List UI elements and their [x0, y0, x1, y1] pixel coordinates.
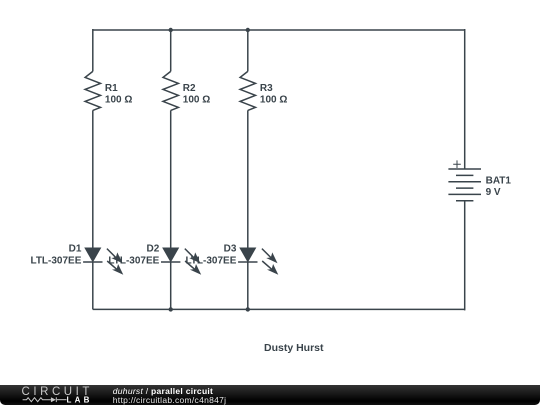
svg-text:Dusty Hurst: Dusty Hurst — [264, 342, 324, 354]
svg-text:100 Ω: 100 Ω — [183, 95, 210, 106]
node junction top middle — [169, 28, 173, 32]
wire D3 to bottom — [247, 262, 249, 309]
svg-text:D3: D3 — [224, 244, 237, 255]
LED D3 — [238, 248, 278, 275]
CircuitLab logo — [0, 385, 100, 405]
svg-text:9 V: 9 V — [486, 187, 501, 198]
svg-text:LAB: LAB — [67, 396, 93, 405]
resistor R2 — [163, 71, 178, 110]
wire bottom rail — [93, 308, 465, 310]
wire right branch upper lead — [247, 30, 249, 71]
LED D2 — [161, 248, 201, 275]
wire battery top lead — [464, 29, 466, 169]
svg-text:R2: R2 — [183, 83, 196, 94]
wire R2 to D2 — [170, 110, 172, 248]
resistor R3 — [240, 71, 255, 110]
footer bar — [0, 385, 540, 405]
node junction top right — [246, 28, 250, 32]
wire R3 to D3 — [247, 110, 249, 248]
svg-text:R3: R3 — [260, 83, 273, 94]
wire middle branch upper lead — [170, 30, 172, 71]
svg-text:R1: R1 — [105, 83, 118, 94]
battery + polarity mark — [453, 160, 461, 168]
wire top rail — [93, 29, 465, 31]
svg-text:D1: D1 — [69, 244, 82, 255]
svg-text:LTL-307EE: LTL-307EE — [185, 256, 236, 267]
wire battery bottom lead — [464, 201, 466, 311]
wire D2 to bottom — [170, 262, 172, 309]
wire D1 to bottom — [92, 262, 94, 309]
svg-text:LTL-307EE: LTL-307EE — [30, 256, 81, 267]
battery BAT1 — [448, 169, 481, 201]
svg-text:100 Ω: 100 Ω — [260, 95, 287, 106]
wire R1 to D1 — [92, 110, 94, 248]
resistor R1 — [85, 71, 100, 110]
footer title text — [113, 387, 226, 406]
LED D1 — [83, 248, 123, 275]
node junction bottom middle — [169, 307, 173, 311]
svg-text:D2: D2 — [147, 244, 160, 255]
node junction bottom right — [246, 307, 250, 311]
svg-text:BAT1: BAT1 — [486, 175, 512, 186]
svg-text:100 Ω: 100 Ω — [105, 95, 132, 106]
wire left branch upper lead — [92, 29, 94, 71]
svg-text:LTL-307EE: LTL-307EE — [108, 256, 159, 267]
